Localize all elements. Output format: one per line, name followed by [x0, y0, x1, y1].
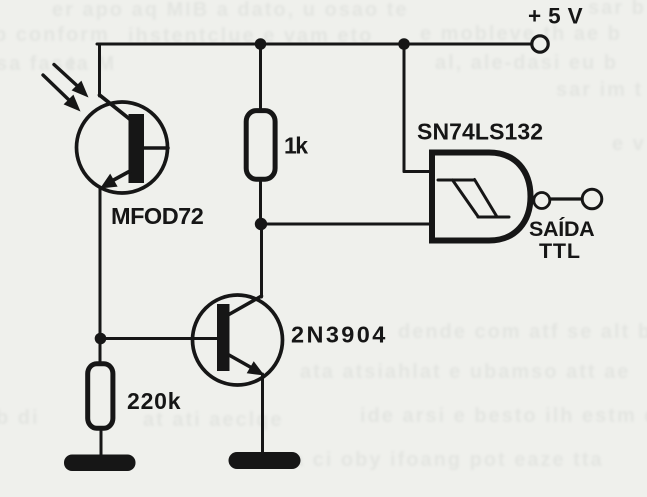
inversion bubble [534, 193, 550, 209]
svg-text:ta M: ta M [68, 53, 116, 75]
wire to gate lower input [261, 223, 432, 226]
light arrow 1 [54, 65, 78, 87]
wire gate upper input vertical [403, 44, 406, 172]
ground (220k) [64, 455, 136, 472]
schmitt hysteresis symbol [438, 180, 509, 218]
ground (2N3904) [229, 452, 301, 469]
svg-text:ata atsiahlat e ubamso att: ata atsiahlat e ubamso att ae [300, 361, 630, 383]
light arrow 2 [43, 75, 70, 101]
transistor Q1 base stub [144, 146, 168, 150]
svg-text:MFOD72: MFOD72 [111, 203, 204, 229]
svg-text:220k: 220k [127, 388, 181, 414]
node top rail / 1k [255, 38, 267, 50]
node 1k bottom junction [255, 218, 267, 230]
wire base of 2N3904 [101, 337, 219, 340]
wire left vertical (collector of MFOD72) [98, 44, 101, 96]
transistor Q2 base bar [217, 304, 230, 371]
wire 1k vertical [259, 44, 262, 224]
wire 220k to ground [100, 431, 103, 456]
op-amp U1 SN74LS132 NAND gate body [432, 153, 531, 241]
resistor R1 1k [246, 111, 275, 180]
svg-text:b conform: b conform [0, 24, 110, 46]
wire gate upper input horizontal [404, 170, 432, 173]
svg-text:TTL: TTL [539, 239, 581, 263]
svg-text:ide arsi e besto ilh estm co: ide arsi e besto ilh estm co [360, 405, 647, 427]
svg-text:er apo aq MIB a dato, u osao t: er apo aq MIB a dato, u osao te [52, 0, 409, 21]
svg-text:SAÍDA: SAÍDA [529, 216, 594, 241]
resistor R2 220k [88, 364, 113, 429]
terminal output [582, 189, 602, 209]
svg-text:dende com atf se alt b: dende com atf se alt b [398, 321, 647, 343]
transistor Q1 emitter line with arrow [110, 171, 131, 183]
svg-text:sa fase: sa fase [0, 53, 78, 75]
wire output [550, 197, 582, 200]
wire Q2 collector up [260, 224, 263, 297]
svg-text:2N3904: 2N3904 [291, 322, 388, 348]
svg-text:a ci oby ifoang pot eaze: a ci oby ifoang pot eaze tta [292, 449, 604, 471]
transistor Q2 2N3904 body [193, 295, 283, 385]
transistor Q1 base bar [129, 114, 145, 183]
terminal +5V [532, 36, 548, 52]
circuit ink [43, 36, 602, 471]
svg-text:e v: e v [612, 133, 646, 155]
node base junction [95, 333, 107, 345]
wire left vertical (emitter of MFOD72 down to 220k) [99, 188, 102, 362]
svg-text:e mobleve th ae b: e mobleve th ae b [420, 23, 622, 45]
transistor Q1 collector line [100, 95, 133, 121]
svg-text:SN74LS132: SN74LS132 [417, 119, 543, 145]
svg-text:sar b: sar b [588, 0, 646, 19]
svg-text:sar im t: sar im t [556, 79, 643, 101]
phototransistor Q1 MFOD72 body [77, 102, 168, 193]
svg-text:b di: b di [0, 407, 40, 429]
transistor Q2 collector line [228, 296, 262, 315]
svg-text:+5V: +5V [528, 4, 590, 29]
svg-text:1k: 1k [284, 133, 308, 159]
node top rail / gate input [398, 38, 410, 50]
transistor Q2 emitter line with arrow [229, 355, 252, 368]
wire top rail +5V [97, 43, 531, 46]
svg-text:al, ale-dasi eu b: al, ale-dasi eu b [435, 52, 618, 74]
wire Q2 emitter down [261, 374, 264, 454]
